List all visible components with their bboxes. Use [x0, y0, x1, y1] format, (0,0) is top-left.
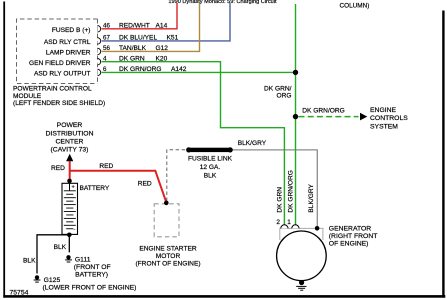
svg-text:POWER: POWER: [57, 122, 83, 129]
svg-text:GENERATOR: GENERATOR: [329, 226, 372, 233]
svg-text:ORG: ORG: [276, 92, 291, 99]
svg-text:DK GRN: DK GRN: [119, 55, 145, 62]
svg-text:(RIGHT FRONT: (RIGHT FRONT: [329, 233, 378, 240]
svg-text:BLK: BLK: [23, 258, 36, 265]
svg-text:75754: 75754: [10, 289, 29, 296]
wire BLK battery to G111: [68, 235, 70, 253]
wire TAN/BLK G12 pin56: [102, 3, 200, 51]
wire BLK battery to G125: [37, 235, 69, 274]
PCM pin bump row 1: [98, 26, 101, 32]
svg-text:ASD RLY CTRL: ASD RLY CTRL: [44, 39, 91, 46]
svg-text:BLK: BLK: [54, 244, 67, 251]
svg-text:BATTERY: BATTERY: [80, 185, 110, 192]
wire DK GRN/ORG A142 pin6: [102, 71, 296, 73]
svg-text:LAMP DRIVER: LAMP DRIVER: [46, 50, 91, 57]
ground G111: [66, 255, 70, 259]
svg-text:DK GRN/ORG: DK GRN/ORG: [288, 170, 295, 213]
wire DK BLU/YEL K51 pin67: [102, 3, 231, 41]
PCM connector dashed box U1: [17, 19, 98, 84]
svg-text:ENGINE: ENGINE: [370, 107, 397, 114]
svg-text:BLK/GRY: BLK/GRY: [308, 184, 315, 213]
svg-text:(LEFT FENDER SIDE SHIELD): (LEFT FENDER SIDE SHIELD): [13, 100, 105, 107]
svg-text:POWERTRAIN CONTROL: POWERTRAIN CONTROL: [13, 86, 92, 93]
svg-text:CONTROLS: CONTROLS: [370, 115, 408, 122]
svg-text:-: -: [74, 227, 76, 233]
svg-text:1: 1: [287, 219, 291, 226]
svg-text:GEN FIELD DRIVER: GEN FIELD DRIVER: [29, 60, 91, 67]
svg-text:RED: RED: [138, 181, 152, 188]
wire RED battery to starter: [70, 171, 167, 203]
svg-text:DK GRN/ORG: DK GRN/ORG: [302, 108, 345, 115]
svg-text:DISTRIBUTION: DISTRIBUTION: [46, 131, 94, 138]
wire DK GRN/ORG vertical main: [295, 4, 297, 225]
arrow to engine controls: [360, 113, 367, 121]
svg-text:G111: G111: [75, 257, 91, 264]
svg-text:DK GRN/ORG: DK GRN/ORG: [119, 66, 162, 73]
svg-text:12 GA.: 12 GA.: [200, 164, 221, 171]
fusible link F1: [188, 148, 231, 152]
arrow to PDC: [66, 154, 73, 161]
svg-text:FUSIBLE LINK: FUSIBLE LINK: [188, 156, 233, 163]
svg-text:MOTOR: MOTOR: [156, 253, 181, 260]
wire RED/WHT A14 pin46: [102, 3, 178, 29]
svg-text:BLK: BLK: [204, 173, 217, 180]
svg-text:G125: G125: [44, 277, 61, 284]
wire RED battery to PDC: [69, 161, 71, 181]
junction engine controls tap: [293, 114, 298, 119]
generator circle: [277, 231, 327, 281]
svg-text:RED: RED: [51, 165, 65, 172]
svg-text:SYSTEM: SYSTEM: [370, 123, 398, 130]
svg-text:A14: A14: [156, 22, 168, 29]
svg-text:OF ENGINE): OF ENGINE): [329, 240, 369, 247]
wire dashed DK GRN/ORG branch: [299, 116, 359, 118]
svg-text:+: +: [72, 185, 75, 191]
generator G1 box: [280, 228, 323, 240]
junction A142: [293, 70, 298, 75]
PCM pin bump row 2: [98, 38, 101, 44]
svg-text:DK GRN/: DK GRN/: [264, 85, 292, 92]
svg-text:1990 Dynasty Monaco: 59: Charg: 1990 Dynasty Monaco: 59: Charging Circui…: [168, 0, 277, 5]
svg-text:RED/WHT: RED/WHT: [119, 22, 150, 29]
wire BLK/GRY: [230, 150, 317, 226]
svg-text:(CAVITY 73): (CAVITY 73): [51, 146, 89, 153]
junction BLK/GRY at generator: [315, 226, 320, 231]
svg-text:(LOWER FRONT OF ENGINE): (LOWER FRONT OF ENGINE): [43, 284, 137, 291]
svg-text:(FRONT OF ENGINE): (FRONT OF ENGINE): [135, 260, 200, 267]
svg-text:CENTER: CENTER: [56, 138, 84, 145]
ground generator: [299, 280, 304, 285]
PCM pin bump row 3: [98, 48, 101, 54]
svg-text:FUSED B (+): FUSED B (+): [52, 27, 91, 34]
wire DK GRN K20 pin4: [102, 62, 285, 225]
engine starter motor dashed box M1: [154, 204, 179, 237]
svg-text:TAN/BLK: TAN/BLK: [119, 45, 147, 52]
svg-text:ASD RLY OUTPUT: ASD RLY OUTPUT: [34, 71, 91, 78]
svg-text:2: 2: [276, 219, 280, 226]
svg-text:K20: K20: [156, 55, 168, 62]
PCM pin bump row 4: [98, 58, 101, 64]
wire dashed lead to fusible link: [167, 150, 188, 201]
svg-text:DK BLU/YEL: DK BLU/YEL: [119, 35, 157, 42]
svg-text:BLK/GRY: BLK/GRY: [238, 140, 267, 147]
svg-text:BATTERY): BATTERY): [75, 271, 108, 278]
svg-text:MODULE: MODULE: [13, 93, 42, 100]
svg-text:DK GRN: DK GRN: [277, 187, 284, 213]
junction starter B+: [164, 201, 169, 206]
svg-text:COLUMN): COLUMN): [340, 2, 370, 9]
svg-text:G12: G12: [156, 45, 169, 52]
svg-text:(FRONT OF: (FRONT OF: [74, 264, 111, 271]
ground G125: [35, 275, 39, 279]
generator pin bump 1: [292, 225, 299, 229]
generator pin bump 2: [281, 225, 288, 229]
PCM pin bump row 5: [98, 69, 101, 75]
battery BAT1: [67, 179, 72, 184]
svg-text:A142: A142: [171, 66, 187, 73]
svg-text:K51: K51: [167, 35, 179, 42]
svg-text:ENGINE STARTER: ENGINE STARTER: [139, 245, 197, 252]
svg-text:RED: RED: [99, 163, 113, 170]
